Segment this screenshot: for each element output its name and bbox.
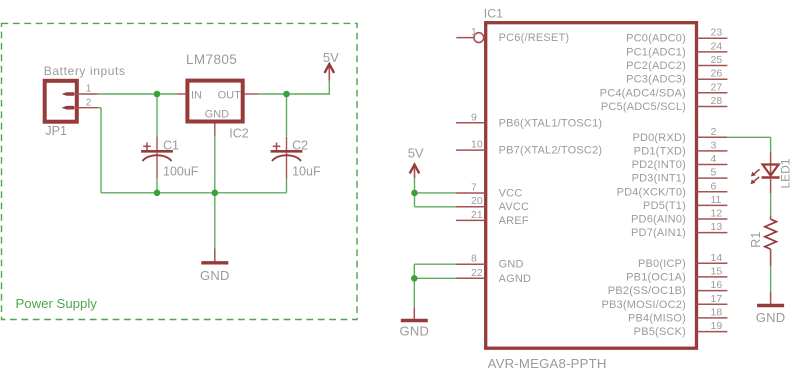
svg-text:2: 2 bbox=[711, 126, 717, 138]
svg-text:12: 12 bbox=[711, 208, 723, 220]
svg-text:28: 28 bbox=[711, 95, 723, 107]
svg-text:18: 18 bbox=[711, 306, 723, 318]
svg-text:IC2: IC2 bbox=[229, 126, 249, 140]
svg-text:13: 13 bbox=[711, 221, 723, 233]
svg-text:20: 20 bbox=[471, 195, 483, 207]
svg-text:GND: GND bbox=[200, 268, 230, 283]
svg-text:PB0(ICP): PB0(ICP) bbox=[638, 258, 686, 270]
svg-text:R1: R1 bbox=[749, 232, 763, 248]
svg-text:PC1(ADC1): PC1(ADC1) bbox=[626, 46, 686, 58]
svg-text:PC5(ADC5/SCL): PC5(ADC5/SCL) bbox=[601, 101, 686, 113]
svg-text:21: 21 bbox=[471, 209, 483, 221]
svg-text:25: 25 bbox=[711, 54, 723, 66]
svg-text:100uF: 100uF bbox=[163, 164, 199, 178]
svg-text:PC0(ADC0): PC0(ADC0) bbox=[626, 33, 686, 45]
svg-text:AREF: AREF bbox=[499, 215, 529, 227]
svg-text:LM7805: LM7805 bbox=[186, 52, 237, 67]
svg-text:11: 11 bbox=[711, 194, 722, 206]
svg-text:3: 3 bbox=[711, 139, 717, 151]
svg-text:PD7(AIN1): PD7(AIN1) bbox=[631, 227, 686, 239]
svg-text:PD2(INT0): PD2(INT0) bbox=[632, 159, 686, 171]
svg-text:10: 10 bbox=[471, 139, 483, 151]
svg-text:IN: IN bbox=[191, 89, 202, 101]
svg-text:PC6(/RESET): PC6(/RESET) bbox=[499, 32, 570, 44]
svg-text:VCC: VCC bbox=[499, 188, 523, 200]
svg-text:5V: 5V bbox=[408, 145, 424, 160]
svg-text:14: 14 bbox=[711, 252, 723, 264]
svg-text:5V: 5V bbox=[323, 50, 339, 65]
svg-text:AVR-MEGA8-PPTH: AVR-MEGA8-PPTH bbox=[488, 356, 607, 371]
svg-text:17: 17 bbox=[711, 293, 723, 305]
svg-text:PD0(RXD): PD0(RXD) bbox=[632, 132, 686, 144]
svg-text:PC2(ADC2): PC2(ADC2) bbox=[626, 60, 686, 72]
svg-text:LED1: LED1 bbox=[779, 158, 793, 188]
svg-text:PB7(XTAL2/TOSC2): PB7(XTAL2/TOSC2) bbox=[499, 145, 603, 157]
svg-text:Battery inputs: Battery inputs bbox=[44, 64, 126, 78]
svg-text:IC1: IC1 bbox=[484, 7, 503, 21]
svg-text:PB2(SS/OC1B): PB2(SS/OC1B) bbox=[608, 285, 686, 297]
svg-text:C2: C2 bbox=[292, 138, 308, 152]
svg-text:16: 16 bbox=[711, 279, 723, 291]
svg-text:PD1(TXD): PD1(TXD) bbox=[634, 145, 686, 157]
svg-text:GND: GND bbox=[756, 310, 786, 325]
svg-text:PB3(MOSI/OC2): PB3(MOSI/OC2) bbox=[601, 299, 686, 311]
svg-text:PD6(AIN0): PD6(AIN0) bbox=[631, 214, 686, 226]
svg-text:PC4(ADC4/SDA): PC4(ADC4/SDA) bbox=[600, 87, 686, 99]
svg-text:22: 22 bbox=[471, 267, 483, 279]
svg-text:PB4(MISO): PB4(MISO) bbox=[628, 312, 686, 324]
svg-text:27: 27 bbox=[711, 81, 723, 93]
svg-text:19: 19 bbox=[711, 320, 723, 332]
svg-text:PD3(INT1): PD3(INT1) bbox=[632, 173, 686, 185]
svg-text:26: 26 bbox=[711, 68, 723, 80]
svg-text:PD5(T1): PD5(T1) bbox=[643, 200, 686, 212]
svg-text:AVCC: AVCC bbox=[499, 201, 530, 213]
svg-text:7: 7 bbox=[471, 182, 477, 194]
svg-text:Power Supply: Power Supply bbox=[16, 296, 98, 311]
svg-text:GND: GND bbox=[499, 259, 524, 271]
svg-text:PC3(ADC3): PC3(ADC3) bbox=[626, 74, 686, 86]
svg-text:C1: C1 bbox=[163, 138, 179, 152]
svg-text:AGND: AGND bbox=[499, 273, 532, 285]
svg-text:PB1(OC1A): PB1(OC1A) bbox=[626, 271, 686, 283]
svg-text:OUT: OUT bbox=[218, 89, 242, 101]
svg-text:8: 8 bbox=[471, 253, 477, 265]
svg-text:5: 5 bbox=[711, 167, 717, 179]
svg-text:6: 6 bbox=[711, 180, 717, 192]
svg-text:PB6(XTAL1/TOSC1): PB6(XTAL1/TOSC1) bbox=[499, 117, 603, 129]
svg-text:PB5(SCK): PB5(SCK) bbox=[634, 326, 686, 338]
svg-text:GND: GND bbox=[205, 108, 230, 120]
svg-text:24: 24 bbox=[711, 40, 723, 52]
svg-text:1: 1 bbox=[86, 84, 92, 95]
svg-text:4: 4 bbox=[711, 153, 717, 165]
svg-text:GND: GND bbox=[400, 324, 430, 339]
svg-text:JP1: JP1 bbox=[45, 124, 67, 138]
svg-text:1: 1 bbox=[471, 26, 477, 38]
svg-text:15: 15 bbox=[711, 265, 723, 277]
svg-text:2: 2 bbox=[86, 97, 92, 108]
svg-text:9: 9 bbox=[471, 111, 477, 123]
svg-text:23: 23 bbox=[711, 27, 723, 39]
svg-text:10uF: 10uF bbox=[292, 164, 321, 178]
svg-text:PD4(XCK/T0): PD4(XCK/T0) bbox=[617, 186, 686, 198]
